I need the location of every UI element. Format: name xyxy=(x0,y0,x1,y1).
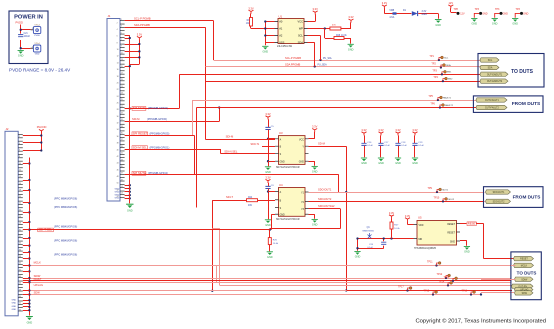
svg-text:1: 1 xyxy=(121,19,122,21)
svg-text:GND: GND xyxy=(127,209,133,212)
svg-text:3.3V: 3.3V xyxy=(265,176,271,180)
svg-text:A2: A2 xyxy=(279,34,283,38)
svg-text:11: 11 xyxy=(121,52,123,54)
svg-text:TP3: TP3 xyxy=(516,8,521,11)
svg-text:44: 44 xyxy=(117,163,119,165)
svg-text:SDO2: SDO2 xyxy=(448,199,455,201)
svg-text:SCL-P PGMB: SCL-P PGMB xyxy=(134,17,151,21)
svg-text:2: 2 xyxy=(117,22,118,24)
svg-text:GND: GND xyxy=(503,13,509,16)
svg-text:38: 38 xyxy=(19,256,21,258)
svg-text:GND: GND xyxy=(12,309,17,311)
svg-text:WP: WP xyxy=(299,27,303,31)
svg-text:21: 21 xyxy=(121,86,123,88)
svg-text:SDI-N SEL: SDI-N SEL xyxy=(224,149,238,153)
svg-text:RESET: RESET xyxy=(468,221,478,225)
svg-text:31: 31 xyxy=(121,119,123,121)
svg-text:4-5A: 4-5A xyxy=(389,16,394,19)
svg-text:MR: MR xyxy=(419,239,423,241)
svg-text:GND: GND xyxy=(312,171,318,174)
svg-text:(PPC MB40/GPIO6): (PPC MB40/GPIO6) xyxy=(54,205,77,209)
svg-text:575-4: 575-4 xyxy=(35,25,41,27)
svg-text:FAULT1: FAULT1 xyxy=(443,96,452,99)
svg-text:34: 34 xyxy=(117,129,119,131)
svg-text:GND: GND xyxy=(263,50,269,53)
svg-text:SDO1: SDO1 xyxy=(442,189,449,191)
svg-text:PVDD: PVDD xyxy=(34,35,40,37)
svg-text:50: 50 xyxy=(19,296,21,298)
svg-text:PVDD RANGE = 8.0V - 26.4V: PVDD RANGE = 8.0V - 26.4V xyxy=(9,68,71,73)
svg-text:36: 36 xyxy=(19,249,21,251)
svg-text:53: 53 xyxy=(121,193,123,195)
svg-text:J1: J1 xyxy=(108,14,111,18)
svg-text:TP3: TP3 xyxy=(495,8,500,11)
svg-text:SPI MUTE: SPI MUTE xyxy=(133,171,146,175)
svg-text:14: 14 xyxy=(19,176,21,178)
svg-text:GND: GND xyxy=(450,241,455,243)
svg-text:37: 37 xyxy=(121,139,123,141)
svg-text:SD-M: SD-M xyxy=(318,142,326,146)
svg-text:RESET: RESET xyxy=(447,224,455,226)
svg-text:SCL: SCL xyxy=(298,34,304,38)
svg-text:6: 6 xyxy=(117,36,118,38)
svg-text:TP2: TP2 xyxy=(431,63,436,66)
svg-text:3.3V: 3.3V xyxy=(395,128,401,132)
svg-text:3.3V: 3.3V xyxy=(265,112,271,116)
svg-text:(PPC MB40/GPIO6): (PPC MB40/GPIO6) xyxy=(54,239,77,243)
svg-text:0.1uF: 0.1uF xyxy=(401,145,407,147)
svg-text:SN74LVC2G157DCUR: SN74LVC2G157DCUR xyxy=(276,167,300,169)
svg-text:TP1: TP1 xyxy=(429,55,434,58)
svg-text:GND: GND xyxy=(464,251,470,254)
svg-text:42: 42 xyxy=(19,269,21,271)
svg-text:FAULT: FAULT xyxy=(34,277,42,281)
svg-text:MCLK: MCLK xyxy=(521,266,528,268)
svg-text:SPI RESET: SPI RESET xyxy=(133,131,148,135)
svg-text:GND: GND xyxy=(472,23,478,26)
svg-text:0.1uF: 0.1uF xyxy=(384,145,390,147)
svg-text:(PPGMB-GPIO1): (PPGMB-GPIO1) xyxy=(149,145,169,149)
svg-text:26: 26 xyxy=(117,103,119,105)
svg-text:49: 49 xyxy=(121,179,123,181)
svg-text:C21: C21 xyxy=(24,33,29,35)
svg-text:GND: GND xyxy=(115,188,120,190)
svg-text:8: 8 xyxy=(117,42,118,44)
svg-text:45: 45 xyxy=(121,166,123,168)
svg-text:30: 30 xyxy=(117,116,119,118)
svg-text:GND: GND xyxy=(355,256,361,259)
svg-text:41: 41 xyxy=(121,153,123,155)
svg-text:51: 51 xyxy=(121,186,123,188)
svg-text:47: 47 xyxy=(121,173,123,175)
svg-text:TP4: TP4 xyxy=(433,76,438,79)
svg-text:TO DUTS: TO DUTS xyxy=(511,69,534,75)
svg-text:10.0k: 10.0k xyxy=(394,228,400,230)
svg-text:6: 6 xyxy=(19,149,20,151)
svg-text:GND: GND xyxy=(492,23,498,26)
svg-text:GND: GND xyxy=(27,321,33,324)
svg-text:3.3V: 3.3V xyxy=(348,15,354,19)
svg-text:SDA: SDA xyxy=(446,64,451,67)
svg-text:PVDD: PVDD xyxy=(16,20,24,24)
svg-text:VCC: VCC xyxy=(298,20,304,24)
svg-text:32: 32 xyxy=(117,123,119,125)
svg-text:POWER IN: POWER IN xyxy=(14,14,43,20)
svg-text:38: 38 xyxy=(117,143,119,145)
svg-text:24: 24 xyxy=(19,209,21,211)
svg-text:TO DUTS: TO DUTS xyxy=(517,271,537,276)
svg-text:TP16: TP16 xyxy=(462,290,468,293)
svg-text:SDA PPGMB: SDA PPGMB xyxy=(134,23,150,27)
svg-text:27: 27 xyxy=(121,106,123,108)
svg-text:4: 4 xyxy=(117,29,118,31)
svg-text:GND: GND xyxy=(299,162,304,164)
svg-text:3.3V: 3.3V xyxy=(389,211,395,215)
svg-text:26: 26 xyxy=(19,216,21,218)
svg-text:3.3V: 3.3V xyxy=(312,125,318,129)
svg-text:SDO-DUT2: SDO-DUT2 xyxy=(318,197,332,201)
svg-text:TP17: TP17 xyxy=(398,286,404,289)
svg-text:43: 43 xyxy=(121,159,123,161)
svg-text:(PPGMB-GPIO0): (PPGMB-GPIO0) xyxy=(147,117,167,121)
svg-text:(PPGMB-GPIO3): (PPGMB-GPIO3) xyxy=(148,106,168,110)
svg-text:GND: GND xyxy=(35,53,40,55)
svg-text:16: 16 xyxy=(117,69,119,71)
svg-text:30: 30 xyxy=(19,229,21,231)
svg-text:3.3V: 3.3V xyxy=(382,1,388,5)
svg-text:3.3V: 3.3V xyxy=(378,128,384,132)
svg-text:3: 3 xyxy=(121,26,122,28)
svg-text:PU_SDA: PU_SDA xyxy=(318,64,328,67)
svg-text:TP3: TP3 xyxy=(432,69,437,72)
svg-text:SCL: SCL xyxy=(488,60,493,62)
svg-text:40: 40 xyxy=(19,263,21,265)
svg-text:0.1uF: 0.1uF xyxy=(367,145,373,147)
svg-text:575-4: 575-4 xyxy=(35,43,41,45)
svg-text:12V: 12V xyxy=(460,13,465,16)
svg-text:SDA PPGMB: SDA PPGMB xyxy=(285,62,301,66)
svg-text:SDO-DUT1&2: SDO-DUT1&2 xyxy=(318,204,335,208)
svg-text:15: 15 xyxy=(121,66,123,68)
svg-text:13: 13 xyxy=(121,59,123,61)
svg-text:44: 44 xyxy=(19,276,21,278)
svg-text:100uF: 100uF xyxy=(24,36,31,38)
svg-text:0.1uF: 0.1uF xyxy=(418,145,424,147)
svg-text:SDI-M: SDI-M xyxy=(226,135,234,139)
svg-text:VCC: VCC xyxy=(299,139,304,141)
svg-text:GND: GND xyxy=(12,303,17,305)
svg-text:28: 28 xyxy=(19,223,21,225)
svg-text:TP6: TP6 xyxy=(430,103,435,106)
svg-text:J2: J2 xyxy=(6,127,9,131)
svg-text:MCLK: MCLK xyxy=(34,260,41,264)
svg-text:17: 17 xyxy=(121,72,123,74)
svg-text:TP5: TP5 xyxy=(428,95,433,98)
svg-text:SCL-P PGMB: SCL-P PGMB xyxy=(285,56,301,60)
svg-text:FROM DUTS: FROM DUTS xyxy=(513,195,541,200)
svg-text:GND: GND xyxy=(115,194,120,196)
svg-text:8: 8 xyxy=(19,156,20,158)
svg-text:50: 50 xyxy=(117,183,119,185)
svg-text:28: 28 xyxy=(117,109,119,111)
svg-text:0.1uF: 0.1uF xyxy=(367,247,373,249)
svg-text:(PPC MB40/GPIO6): (PPC MB40/GPIO6) xyxy=(54,225,77,229)
svg-text:SDA: SDA xyxy=(298,41,304,45)
svg-text:2: 2 xyxy=(19,136,20,138)
svg-text:3.3V: 3.3V xyxy=(422,11,427,13)
svg-text:GND: GND xyxy=(267,256,273,259)
svg-text:46: 46 xyxy=(117,169,119,171)
svg-text:R24: R24 xyxy=(248,197,253,199)
svg-text:TP8: TP8 xyxy=(454,8,459,11)
svg-text:33: 33 xyxy=(121,126,123,128)
svg-text:OUT-EN/DUT1: OUT-EN/DUT1 xyxy=(487,74,503,76)
svg-text:5: 5 xyxy=(121,32,122,34)
svg-text:3.3V: 3.3V xyxy=(361,128,367,132)
svg-text:16: 16 xyxy=(19,183,21,185)
svg-text:GND: GND xyxy=(115,191,120,193)
svg-text:40: 40 xyxy=(117,149,119,151)
svg-text:GND: GND xyxy=(280,215,285,217)
svg-text:SDO-DUT2: SDO-DUT2 xyxy=(493,202,505,204)
svg-text:A1: A1 xyxy=(279,27,283,31)
svg-text:29: 29 xyxy=(121,113,123,115)
svg-text:(PPC MB40/GPIO6): (PPC MB40/GPIO6) xyxy=(54,253,77,257)
svg-text:39: 39 xyxy=(121,146,123,148)
svg-text:GND: GND xyxy=(523,13,529,16)
svg-text:PGOOD: PGOOD xyxy=(37,125,47,129)
svg-text:20: 20 xyxy=(117,82,119,84)
svg-text:SDW: SDW xyxy=(34,291,41,295)
svg-text:SDI-M SEL: SDI-M SEL xyxy=(133,145,147,149)
svg-text:TP10: TP10 xyxy=(434,196,440,199)
svg-text:U1: U1 xyxy=(279,15,283,19)
svg-text:SN74LVC2G157DCUR: SN74LVC2G157DCUR xyxy=(276,219,300,221)
svg-text:GND: GND xyxy=(115,197,120,199)
svg-text:24: 24 xyxy=(117,96,119,98)
svg-text:VSS: VSS xyxy=(279,41,284,45)
svg-text:FAULT2: FAULT2 xyxy=(445,104,454,107)
svg-text:12: 12 xyxy=(19,169,21,171)
svg-text:10.0k: 10.0k xyxy=(341,35,347,37)
svg-text:12V: 12V xyxy=(448,1,453,5)
svg-text:SDI-M: SDI-M xyxy=(132,117,139,121)
svg-text:22: 22 xyxy=(117,89,119,91)
svg-text:RESET: RESET xyxy=(520,259,528,261)
svg-text:52: 52 xyxy=(19,303,21,305)
svg-text:SDI-T SEL: SDI-T SEL xyxy=(39,228,53,232)
svg-text:TPS3808G01QDBVR: TPS3808G01QDBVR xyxy=(414,248,436,250)
svg-text:SDO-DUT1: SDO-DUT1 xyxy=(318,188,332,192)
svg-text:GND: GND xyxy=(280,162,285,164)
svg-text:SDIW: SDIW xyxy=(521,279,528,281)
svg-text:U5: U5 xyxy=(418,216,422,220)
svg-text:12: 12 xyxy=(117,56,119,58)
svg-text:GND: GND xyxy=(378,162,384,165)
svg-text:SDI-T: SDI-T xyxy=(226,195,233,199)
svg-text:U3: U3 xyxy=(279,131,283,135)
svg-text:TP3: TP3 xyxy=(475,8,480,11)
svg-text:A0: A0 xyxy=(279,20,283,24)
svg-text:Copyright © 2017, Texas Instru: Copyright © 2017, Texas Instruments Inco… xyxy=(415,318,546,325)
svg-text:GND: GND xyxy=(348,48,354,51)
svg-text:DUT-FAULT2: DUT-FAULT2 xyxy=(485,107,499,110)
svg-text:RESET: RESET xyxy=(447,232,455,234)
svg-text:10.0k: 10.0k xyxy=(273,243,279,245)
svg-text:U4: U4 xyxy=(279,183,283,187)
svg-text:(PPGMB-GPIO5): (PPGMB-GPIO5) xyxy=(149,131,169,135)
svg-text:GMB: GMB xyxy=(422,14,428,16)
svg-text:GND: GND xyxy=(18,55,24,58)
svg-text:DUT-FAULT1: DUT-FAULT1 xyxy=(485,99,499,102)
svg-text:SDW: SDW xyxy=(522,293,528,295)
svg-text:3.3V: 3.3V xyxy=(412,128,418,132)
svg-text:46: 46 xyxy=(19,283,21,285)
svg-text:GND: GND xyxy=(412,162,418,165)
svg-text:23: 23 xyxy=(121,92,123,94)
svg-text:TP13: TP13 xyxy=(444,276,450,279)
svg-text:GND: GND xyxy=(361,162,367,165)
svg-text:MMBT3906: MMBT3906 xyxy=(363,230,375,232)
svg-text:TP12: TP12 xyxy=(437,273,443,276)
svg-text:GND: GND xyxy=(12,300,17,302)
svg-text:7: 7 xyxy=(121,39,122,41)
svg-text:GND: GND xyxy=(312,224,318,227)
svg-text:35: 35 xyxy=(121,133,123,135)
svg-text:GND: GND xyxy=(435,24,441,27)
svg-text:SDO-T1: SDO-T1 xyxy=(251,143,260,146)
svg-text:GND: GND xyxy=(265,171,271,174)
svg-text:10: 10 xyxy=(19,163,21,165)
svg-text:54: 54 xyxy=(19,309,21,311)
svg-text:19: 19 xyxy=(121,79,123,81)
svg-text:18: 18 xyxy=(19,189,21,191)
svg-text:3.3V: 3.3V xyxy=(248,6,254,10)
svg-text:3.3V: 3.3V xyxy=(137,33,143,37)
svg-text:SDA: SDA xyxy=(488,67,493,70)
svg-text:PU_SCL: PU_SCL xyxy=(323,58,333,60)
svg-text:24LC256-I/SN: 24LC256-I/SN xyxy=(277,45,292,48)
svg-text:GND: GND xyxy=(265,224,271,227)
svg-text:22: 22 xyxy=(19,203,21,205)
svg-text:SPI MOSI: SPI MOSI xyxy=(133,106,146,110)
svg-text:TP9: TP9 xyxy=(428,187,433,190)
svg-text:9: 9 xyxy=(121,46,122,48)
svg-text:3.3V: 3.3V xyxy=(313,7,319,11)
svg-text:TP15: TP15 xyxy=(424,290,430,293)
svg-text:25: 25 xyxy=(121,99,123,101)
svg-text:14: 14 xyxy=(117,62,119,64)
svg-text:U/FLAG: U/FLAG xyxy=(34,283,43,287)
svg-text:42: 42 xyxy=(117,156,119,158)
svg-text:OUT-EN/DUT2: OUT-EN/DUT2 xyxy=(487,81,503,83)
svg-text:GND: GND xyxy=(482,13,488,16)
svg-text:(PPC MB40/GPIO6): (PPC MB40/GPIO6) xyxy=(54,196,77,200)
svg-text:GND: GND xyxy=(395,162,401,165)
svg-text:48: 48 xyxy=(19,289,21,291)
svg-text:20: 20 xyxy=(19,196,21,198)
svg-text:FROM DUTS: FROM DUTS xyxy=(512,101,541,107)
svg-text:SDO-DUT1: SDO-DUT1 xyxy=(493,192,505,194)
svg-text:3.3V: 3.3V xyxy=(405,214,411,218)
svg-text:TP11: TP11 xyxy=(427,261,433,264)
svg-text:GND: GND xyxy=(12,306,17,308)
svg-text:VDB: VDB xyxy=(389,10,394,12)
svg-text:36: 36 xyxy=(117,136,119,138)
svg-text:10: 10 xyxy=(117,49,119,51)
svg-text:VDD: VDD xyxy=(419,225,424,227)
svg-text:34: 34 xyxy=(19,243,21,245)
svg-text:4: 4 xyxy=(19,143,20,145)
svg-text:GND: GND xyxy=(512,23,518,26)
svg-text:18: 18 xyxy=(117,76,119,78)
svg-text:48: 48 xyxy=(117,176,119,178)
svg-text:(PPGMB-GPIO4): (PPGMB-GPIO4) xyxy=(148,171,168,175)
svg-text:TP14: TP14 xyxy=(439,280,445,283)
svg-text:32: 32 xyxy=(19,236,21,238)
